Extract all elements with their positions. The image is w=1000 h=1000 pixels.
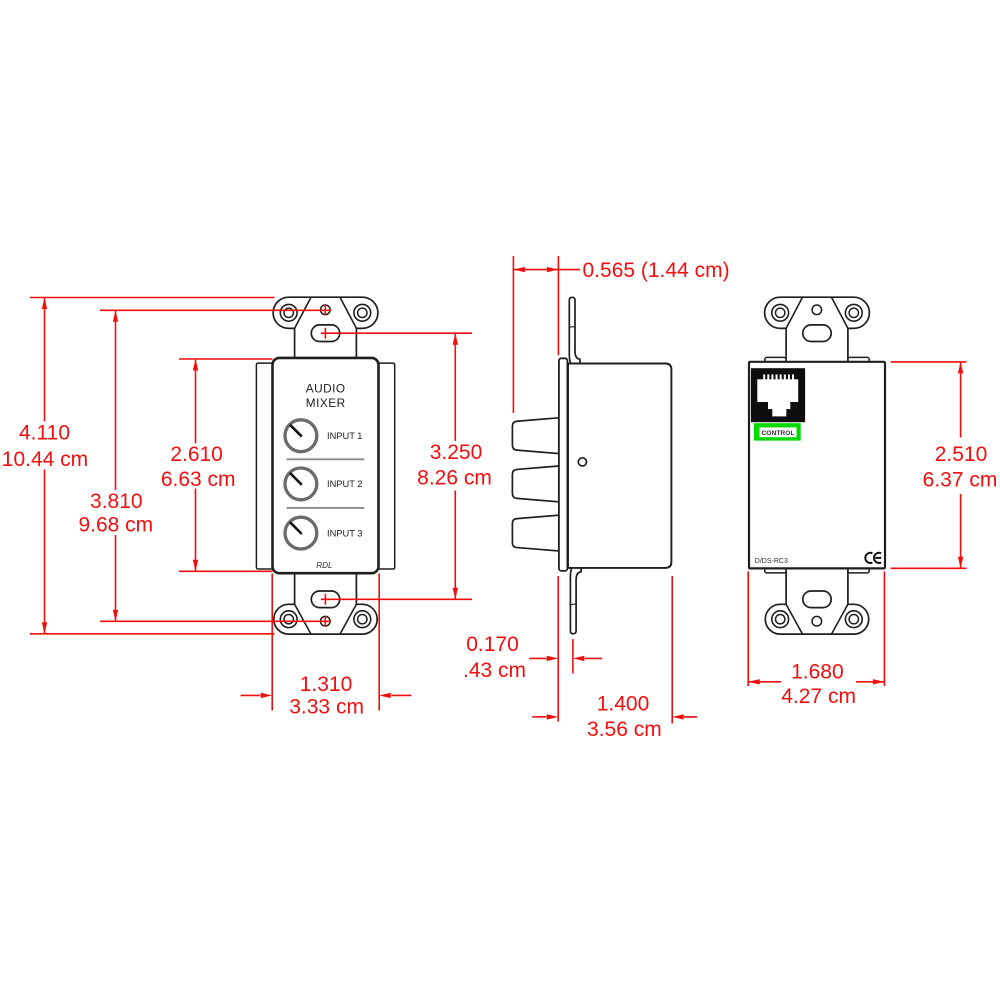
knob INPUT 3 <box>285 517 317 549</box>
svg-text:4.27 cm: 4.27 cm <box>781 685 856 708</box>
svg-text:1.400: 1.400 <box>597 692 650 715</box>
svg-text:9.68 cm: 9.68 cm <box>78 514 153 537</box>
bracket outline <box>765 566 868 634</box>
front left side tab <box>256 363 273 569</box>
dim 0.565 text <box>583 259 730 282</box>
svg-text:0.170: 0.170 <box>466 633 519 656</box>
bracket pilot hole <box>321 616 331 626</box>
dim 2.610 text <box>161 443 236 491</box>
svg-text:MIXER: MIXER <box>306 396 346 410</box>
svg-text:2.510: 2.510 <box>935 443 988 466</box>
svg-text:D/DS-RC3: D/DS-RC3 <box>755 558 788 565</box>
dim 0.170 arrows <box>529 656 602 661</box>
svg-text:8.26 cm: 8.26 cm <box>417 467 492 490</box>
svg-text:1.310: 1.310 <box>300 673 353 696</box>
bracket screw slot <box>803 591 831 608</box>
bracket screw slot <box>803 325 831 342</box>
dim 1.680 text <box>781 661 856 709</box>
dim 0.170 extension lines <box>558 576 573 722</box>
label INPUT 3 <box>327 528 362 538</box>
RJ45 jack CONTROL <box>751 368 805 422</box>
bracket pilot hole <box>812 305 822 315</box>
dim 1.310 extension lines <box>272 574 379 711</box>
svg-text:6.63 cm: 6.63 cm <box>161 468 236 491</box>
dim 4.110 extension lines <box>30 298 275 634</box>
svg-text:0.565 (1.44 cm): 0.565 (1.44 cm) <box>583 259 730 282</box>
label INPUT 2 <box>327 479 362 489</box>
label RDL <box>316 561 332 570</box>
dim 2.610 line <box>193 359 198 571</box>
svg-text:10.44 cm: 10.44 cm <box>2 448 88 471</box>
svg-text:AUDIO: AUDIO <box>306 382 346 396</box>
front right side tab <box>378 363 395 569</box>
side top flange tab <box>569 297 580 367</box>
left ear hole <box>280 304 297 321</box>
separator line 2 <box>287 507 365 509</box>
dim 4.110 text <box>2 422 88 471</box>
bracket bend lines <box>786 604 848 634</box>
svg-text:INPUT 3: INPUT 3 <box>327 528 362 538</box>
side top flange tick <box>569 326 575 329</box>
dim 1.680 line <box>748 679 884 684</box>
side bottom flange tab <box>570 564 581 634</box>
side bottom flange tick <box>570 603 576 606</box>
dim 3.810 extension lines <box>100 304 331 626</box>
left ear hole <box>772 611 789 628</box>
bracket bend lines <box>295 604 357 634</box>
side knob 3 <box>512 515 558 551</box>
bracket screw slot <box>311 325 339 342</box>
rear top tab <box>848 357 870 365</box>
label AUDIO MIXER <box>306 382 346 410</box>
label INPUT 1 <box>327 431 362 441</box>
side plate edge <box>559 358 568 571</box>
bracket pilot hole <box>812 616 822 626</box>
rear top tab <box>765 357 787 365</box>
CONTROL label <box>754 423 801 440</box>
svg-text:.43 cm: .43 cm <box>463 659 526 682</box>
dim 1.310 arrows <box>241 693 412 698</box>
svg-text:3.250: 3.250 <box>430 441 483 464</box>
label D/DS-RC3 <box>755 558 788 565</box>
dim 0.170 text <box>463 633 526 682</box>
side enclosure box <box>568 364 671 568</box>
dim 3.250 text <box>417 441 492 489</box>
dim 3.250 line <box>453 333 458 599</box>
svg-text:1.680: 1.680 <box>791 661 844 684</box>
bracket bend lines <box>295 297 357 328</box>
dim 2.510 extension lines <box>891 362 967 568</box>
svg-text:3.33 cm: 3.33 cm <box>289 696 364 719</box>
separator line 1 <box>287 458 365 460</box>
bracket outline <box>765 297 870 364</box>
bracket screw slot <box>311 591 339 608</box>
front plate <box>273 358 379 573</box>
svg-text:INPUT 1: INPUT 1 <box>327 431 362 441</box>
side knob 1 <box>512 418 558 454</box>
side knob 2 <box>512 466 558 502</box>
bracket outline <box>274 571 377 634</box>
svg-text:3.56 cm: 3.56 cm <box>587 718 662 741</box>
dim 2.510 line <box>958 362 963 568</box>
right ear hole <box>354 611 371 628</box>
right ear hole <box>354 304 371 321</box>
dim 0.565 line <box>513 267 580 272</box>
right ear hole <box>845 611 862 628</box>
knob INPUT 2 <box>285 468 317 500</box>
CE mark <box>865 553 881 563</box>
dim 1.400 arrows <box>532 714 697 719</box>
svg-text:4.110: 4.110 <box>19 422 70 445</box>
dim 4.110 line <box>42 298 47 634</box>
dim 3.250 extension lines <box>321 328 472 605</box>
bracket pilot hole <box>321 305 331 315</box>
knob INPUT 1 <box>285 420 317 452</box>
svg-text:3.810: 3.810 <box>90 490 143 513</box>
bracket bend lines <box>786 297 848 328</box>
dim 2.510 text <box>923 443 998 492</box>
svg-text:2.610: 2.610 <box>170 443 223 466</box>
dim 1.400 text <box>587 692 662 741</box>
dim 1.400 extension line <box>671 576 673 724</box>
rear plate body <box>749 362 885 569</box>
side box hole <box>578 458 586 466</box>
left ear hole <box>772 304 789 321</box>
svg-text:RDL: RDL <box>316 561 332 570</box>
right ear hole <box>845 304 862 321</box>
rear bottom tab <box>765 565 787 573</box>
dim 2.610 extension lines <box>179 359 273 571</box>
svg-text:6.37 cm: 6.37 cm <box>923 468 998 491</box>
left ear hole <box>280 611 297 628</box>
rear bottom tab <box>848 565 870 573</box>
dim 3.810 text <box>78 490 153 536</box>
dim 1.680 extension lines <box>748 571 884 686</box>
dim 3.810 line <box>113 310 118 621</box>
dim 1.310 text <box>289 673 364 718</box>
svg-text:CONTROL: CONTROL <box>761 430 794 437</box>
dim 0.565 extension lines <box>513 256 558 413</box>
svg-text:INPUT 2: INPUT 2 <box>327 479 362 489</box>
bracket outline <box>273 297 378 360</box>
